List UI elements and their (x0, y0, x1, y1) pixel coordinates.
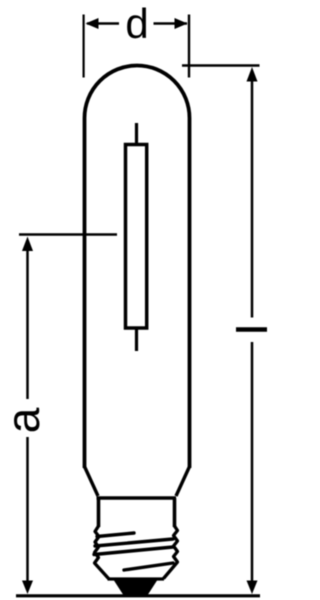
svg-text:a: a (0, 407, 49, 433)
svg-text:d: d (125, 0, 148, 47)
